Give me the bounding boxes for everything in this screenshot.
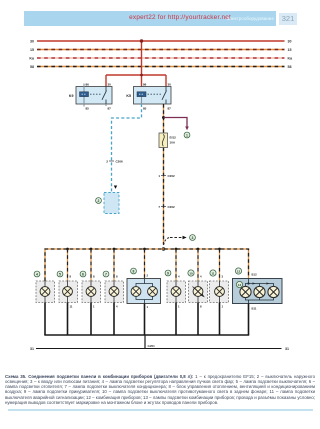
svg-text:6: 6 bbox=[82, 272, 84, 276]
svg-text:8: 8 bbox=[93, 275, 95, 279]
svg-text:K5: K5 bbox=[126, 94, 131, 98]
svg-text:15: 15 bbox=[30, 48, 34, 52]
svg-text:9: 9 bbox=[167, 271, 169, 275]
svg-text:30: 30 bbox=[168, 82, 172, 86]
svg-text:5: 5 bbox=[59, 272, 61, 276]
svg-text:3: 3 bbox=[192, 236, 194, 240]
svg-text:4: 4 bbox=[178, 275, 180, 279]
svg-text:B11: B11 bbox=[252, 306, 257, 310]
svg-text:86: 86 bbox=[143, 82, 147, 86]
svg-text:87: 87 bbox=[168, 106, 172, 110]
svg-text:Ef12: Ef12 bbox=[170, 136, 177, 140]
svg-text:85: 85 bbox=[143, 106, 147, 110]
svg-text:85: 85 bbox=[86, 106, 90, 110]
svg-text:7: 7 bbox=[105, 272, 107, 276]
svg-text:8: 8 bbox=[70, 275, 72, 279]
svg-text:8: 8 bbox=[116, 275, 118, 279]
svg-text:2: 2 bbox=[147, 274, 149, 278]
svg-text:30: 30 bbox=[108, 82, 112, 86]
svg-text:2: 2 bbox=[98, 199, 100, 203]
svg-text:K9: K9 bbox=[69, 94, 74, 98]
svg-text:30: 30 bbox=[30, 39, 34, 43]
svg-text:B12: B12 bbox=[252, 272, 258, 276]
svg-text:Ka: Ka bbox=[288, 56, 294, 60]
svg-text:8: 8 bbox=[200, 305, 202, 309]
svg-text:3: 3 bbox=[222, 275, 224, 279]
svg-text:C202: C202 bbox=[168, 205, 176, 209]
svg-text:58: 58 bbox=[288, 65, 292, 69]
svg-text:10A: 10A bbox=[170, 140, 176, 144]
svg-text:1: 1 bbox=[186, 133, 188, 137]
svg-text:Ka: Ka bbox=[29, 56, 35, 60]
svg-text:1: 1 bbox=[147, 305, 149, 309]
svg-text:1: 1 bbox=[178, 305, 180, 309]
svg-text:4: 4 bbox=[200, 275, 202, 279]
svg-text:11: 11 bbox=[211, 271, 215, 275]
svg-text:4: 4 bbox=[116, 305, 118, 309]
svg-text:31: 31 bbox=[285, 347, 289, 351]
svg-text:1: 1 bbox=[222, 305, 224, 309]
svg-text:15: 15 bbox=[288, 48, 292, 52]
svg-text:7: 7 bbox=[158, 205, 160, 209]
svg-text:31: 31 bbox=[30, 347, 34, 351]
svg-text:1: 1 bbox=[93, 305, 95, 309]
svg-text:13: 13 bbox=[238, 283, 242, 287]
svg-text:30: 30 bbox=[288, 39, 292, 43]
svg-text:87: 87 bbox=[108, 106, 112, 110]
svg-text:58: 58 bbox=[30, 65, 34, 69]
svg-text:12: 12 bbox=[237, 269, 241, 273]
svg-text:10: 10 bbox=[189, 271, 193, 275]
svg-text:G201: G201 bbox=[148, 344, 156, 348]
svg-text:11: 11 bbox=[70, 305, 73, 309]
svg-text:1: 1 bbox=[158, 174, 160, 178]
svg-text:C206: C206 bbox=[116, 160, 124, 164]
svg-text:C202: C202 bbox=[168, 174, 176, 178]
svg-text:86: 86 bbox=[86, 82, 90, 86]
svg-text:4: 4 bbox=[36, 272, 38, 276]
svg-text:8: 8 bbox=[133, 269, 135, 273]
svg-text:2: 2 bbox=[106, 160, 108, 164]
